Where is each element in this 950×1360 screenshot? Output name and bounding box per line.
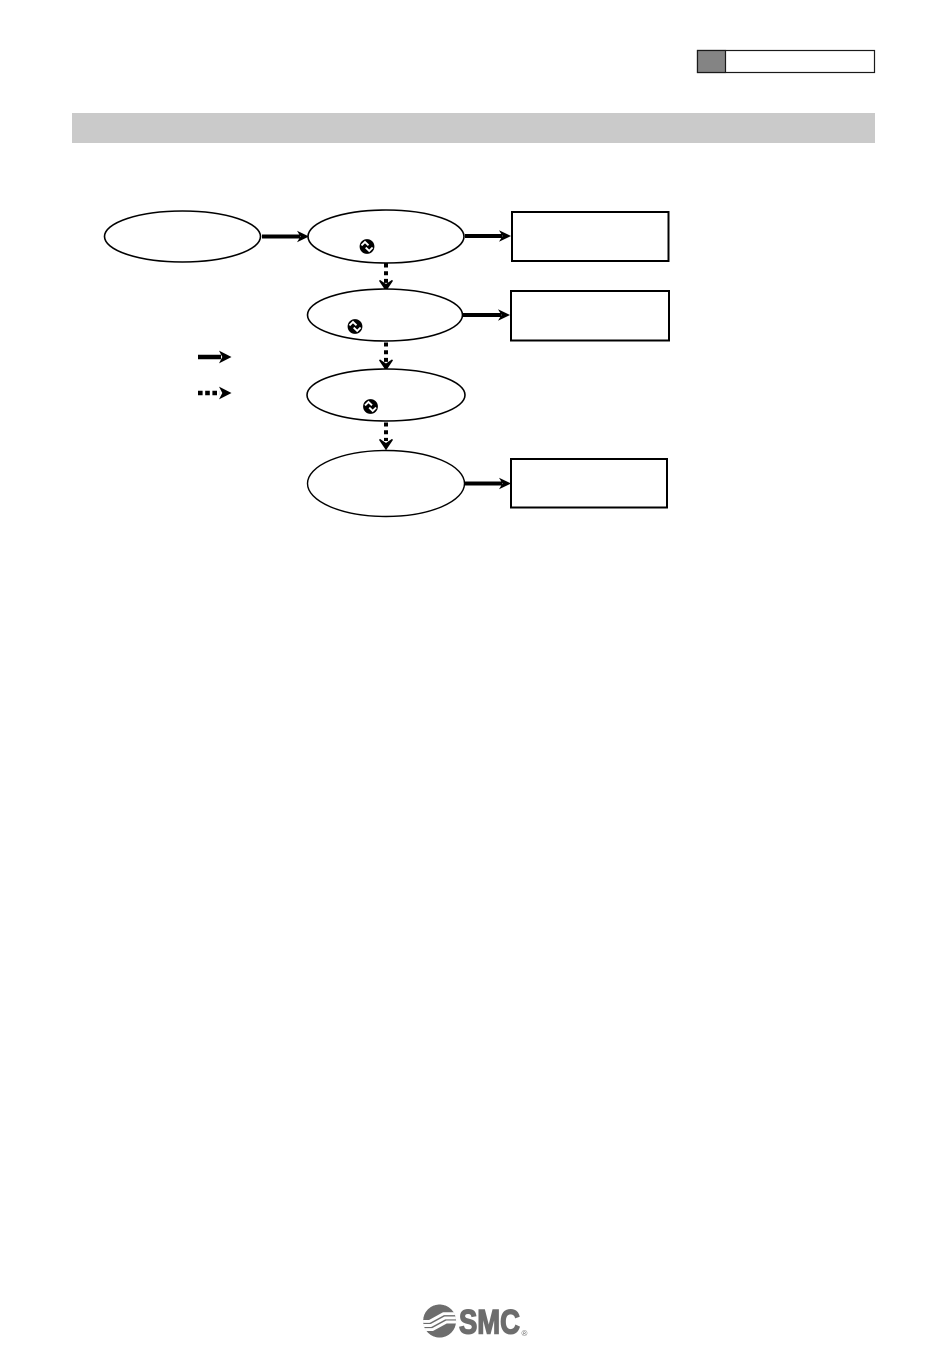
box row1 xyxy=(512,212,669,261)
dashed arrow row2-row3 xyxy=(380,343,393,370)
SMC logo globe xyxy=(421,1304,458,1337)
legend dashed arrow xyxy=(198,387,232,400)
dashed arrow row1-row2 xyxy=(380,264,393,291)
ellipse row4 xyxy=(308,451,465,517)
SMC logo text xyxy=(459,1304,528,1342)
svg-text:SMC: SMC xyxy=(459,1304,520,1342)
svg-text:®: ® xyxy=(522,1329,528,1338)
box row4 xyxy=(511,459,667,508)
arrow row1 to box xyxy=(465,230,511,242)
arrow row2 to box xyxy=(463,309,510,321)
arrow row4 to box xyxy=(465,478,511,490)
header label box (top right) xyxy=(698,51,875,73)
wave icon row2 xyxy=(348,319,363,334)
legend solid arrow xyxy=(198,351,232,364)
ellipse row1 left xyxy=(105,211,261,262)
wave icon row3 xyxy=(363,399,378,414)
arrow row1 left-to-center xyxy=(262,231,309,243)
wave icon row1 xyxy=(360,239,375,254)
box row2 xyxy=(511,291,669,341)
ellipse row3 xyxy=(307,369,465,421)
ellipse row1 center xyxy=(308,210,464,263)
dashed arrow row3-row4 xyxy=(380,423,393,450)
ellipse row2 xyxy=(308,289,463,341)
section title banner xyxy=(72,113,875,143)
